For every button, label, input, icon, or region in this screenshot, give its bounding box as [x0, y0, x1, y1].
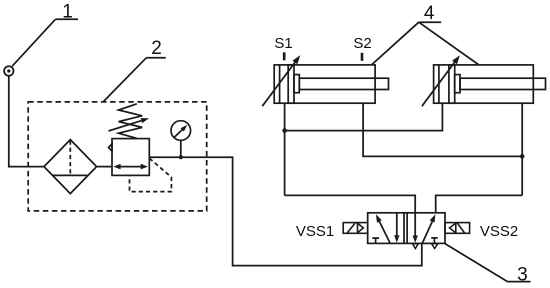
label 3: [445, 244, 530, 286]
wire node B to valve port 2: [436, 195, 523, 212]
valve right position: blocked port T: [431, 238, 438, 243]
label 4: [372, 3, 478, 65]
air supply source: [4, 66, 13, 75]
valve left position: blocked port T: [372, 238, 379, 243]
valve V1 5/2 body: [368, 213, 445, 244]
regulator adjustment arrow: [109, 118, 150, 131]
cylinder C1 adjustment arrow: [262, 55, 300, 106]
valve left position: vertical flow arrow: [394, 213, 399, 243]
filter F (diamond): [44, 140, 97, 194]
svg-text:S2: S2: [353, 35, 371, 52]
wire cylinder C2 rod-end port riser: [521, 103, 523, 195]
solenoid VSS2: [445, 223, 470, 234]
wire filter to regulator: [97, 166, 112, 168]
cylinder C2 adjustment arrow: [422, 55, 460, 106]
regulator spring: [119, 104, 143, 139]
svg-text:4: 4: [424, 3, 435, 24]
node A junction: [282, 128, 287, 133]
svg-text:S1: S1: [274, 35, 292, 52]
gauge stem wire: [180, 140, 182, 157]
label 2: [103, 38, 166, 102]
regulator flow double arrow: [113, 164, 147, 170]
pressure gauge: [171, 121, 191, 141]
regulator vent triangle: [109, 144, 113, 151]
cylinder C2: [434, 65, 546, 103]
regulator R body: [112, 139, 149, 176]
valve exhaust triangle port 3: [432, 244, 438, 249]
sensor S2 tick: [361, 53, 364, 61]
svg-text:VSS1: VSS1: [296, 223, 334, 240]
regulator pilot line (dashed): [130, 158, 172, 191]
wire node A to valve port 4: [285, 195, 416, 212]
cylinder C1: [274, 65, 388, 103]
wire node A to cylinder C2 cap-end port: [285, 103, 443, 130]
label 1: [12, 2, 78, 67]
wire regulator output to valve supply: [149, 157, 422, 265]
sensor S1 tick: [283, 52, 286, 60]
wire cylinder C1 rod-end port to node B: [363, 103, 522, 156]
valve right position: supply diagonal arrow (1 to 2): [422, 214, 435, 243]
valve left position: diagonal flow arrow: [376, 214, 390, 242]
svg-text:VSS2: VSS2: [480, 223, 518, 240]
valve right position: down flow arrow (port 4 to exhaust): [413, 213, 418, 243]
solenoid VSS1: [343, 223, 368, 234]
node B junction: [520, 154, 525, 159]
svg-text:2: 2: [151, 38, 162, 59]
valve exhaust triangle port 5: [413, 244, 419, 249]
node gauge junction: [179, 155, 183, 159]
FRL unit dashed enclosure: [28, 102, 207, 211]
wire supply drop: [9, 76, 44, 167]
wire cylinder C1 cap-end port riser: [284, 103, 286, 195]
